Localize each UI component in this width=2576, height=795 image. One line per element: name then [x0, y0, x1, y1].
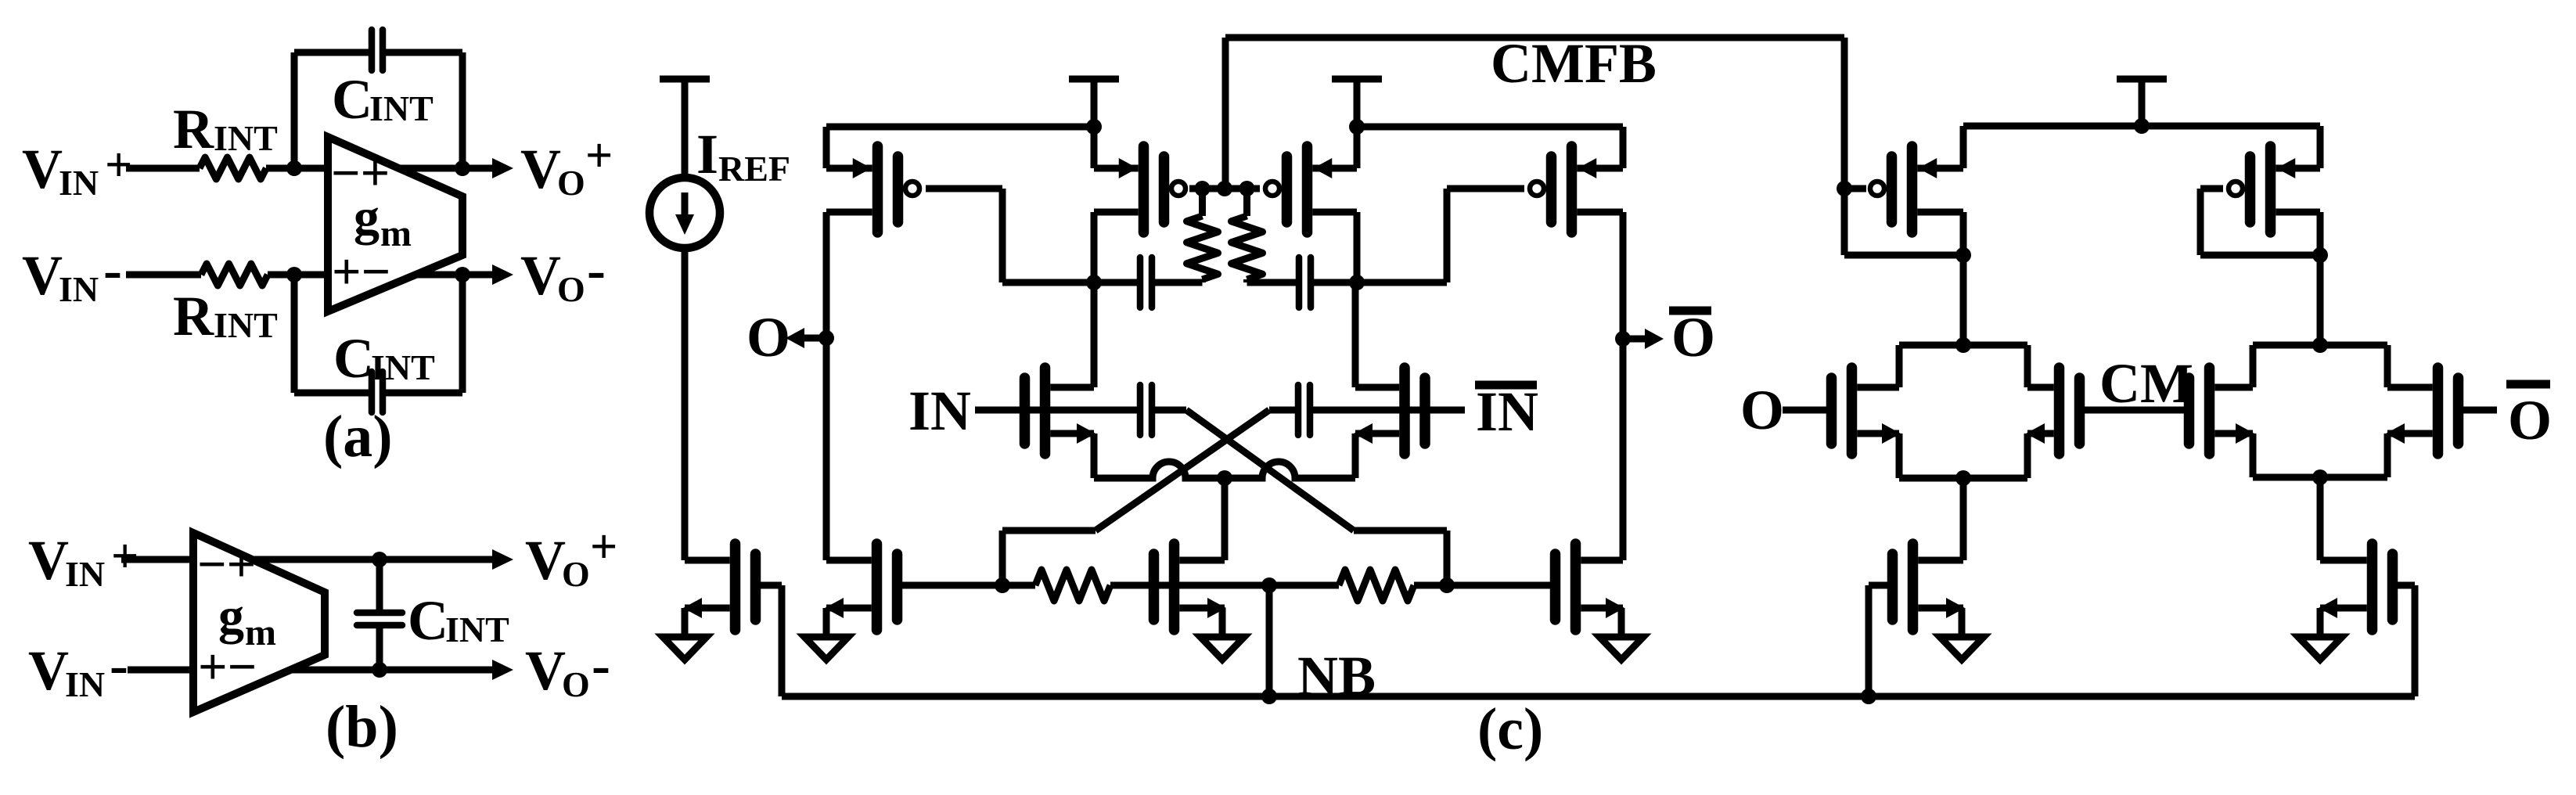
svg-text:+: + — [590, 520, 617, 574]
svg-text:V: V — [525, 529, 566, 592]
svg-text:I: I — [696, 123, 718, 185]
svg-text:IN: IN — [65, 664, 105, 704]
svg-text:−+: −+ — [197, 536, 256, 593]
svg-text:V: V — [28, 529, 69, 592]
svg-text:O: O — [747, 306, 790, 369]
svg-text:INT: INT — [371, 347, 435, 387]
svg-text:IN: IN — [1476, 380, 1538, 443]
svg-text:O: O — [557, 163, 585, 203]
svg-text:REF: REF — [718, 149, 790, 189]
svg-text:O: O — [557, 269, 585, 309]
svg-text:C: C — [333, 327, 374, 390]
svg-text:R: R — [173, 285, 214, 347]
svg-text:V: V — [525, 639, 566, 702]
svg-text:g: g — [354, 189, 380, 246]
svg-text:V: V — [520, 138, 561, 200]
svg-text:+: + — [585, 129, 613, 182]
svg-text:INT: INT — [369, 88, 434, 128]
svg-text:-: - — [103, 239, 122, 301]
svg-text:O: O — [562, 664, 590, 704]
svg-text:O: O — [1671, 306, 1715, 369]
svg-text:O: O — [1740, 379, 1784, 441]
svg-text:IN: IN — [59, 163, 99, 203]
svg-text:(b): (b) — [326, 694, 398, 760]
svg-text:C: C — [408, 589, 448, 652]
svg-text:IN: IN — [65, 554, 105, 594]
svg-text:V: V — [520, 244, 561, 307]
svg-text:-: - — [592, 634, 610, 696]
svg-text:O: O — [2508, 389, 2552, 451]
svg-text:+: + — [111, 530, 139, 583]
svg-text:IN: IN — [908, 380, 971, 442]
svg-text:-: - — [587, 239, 606, 301]
svg-text:+: + — [105, 138, 132, 192]
svg-text:INT: INT — [214, 118, 278, 158]
svg-text:INT: INT — [214, 305, 278, 345]
svg-text:m: m — [245, 612, 276, 653]
svg-text:(a): (a) — [323, 404, 393, 469]
svg-text:R: R — [173, 98, 214, 160]
svg-text:m: m — [380, 213, 412, 254]
svg-text:O: O — [562, 554, 590, 594]
svg-text:V: V — [22, 138, 63, 200]
svg-text:NB: NB — [1297, 645, 1376, 707]
svg-text:g: g — [218, 588, 244, 645]
svg-text:V: V — [22, 244, 63, 307]
svg-text:(c): (c) — [1477, 696, 1543, 762]
svg-text:C: C — [332, 68, 372, 131]
svg-text:-: - — [110, 634, 128, 696]
svg-text:CMFB: CMFB — [1491, 32, 1657, 95]
svg-text:IN: IN — [59, 269, 99, 309]
svg-text:CM: CM — [2099, 352, 2193, 415]
svg-text:V: V — [28, 639, 69, 702]
svg-text:INT: INT — [445, 610, 509, 649]
